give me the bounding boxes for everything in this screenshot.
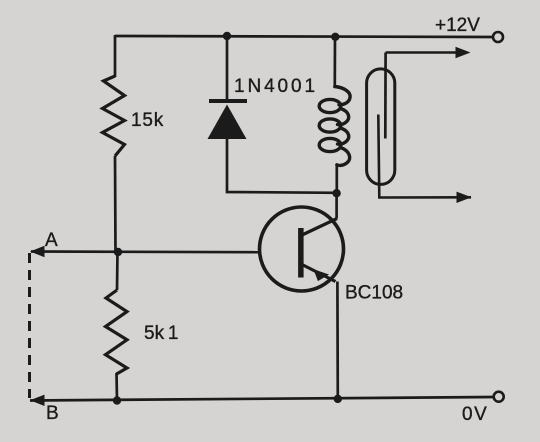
wire diode top lead xyxy=(226,36,229,100)
wire 5k1 bottom lead xyxy=(115,373,118,401)
wire diode bottom lead xyxy=(227,139,337,193)
node A junction xyxy=(114,248,122,256)
terminal 0V xyxy=(494,392,504,402)
arrow node A xyxy=(30,246,45,257)
svg-text:1N4001: 1N4001 xyxy=(234,76,318,97)
arrow bottom output xyxy=(457,192,472,203)
label B xyxy=(46,403,59,424)
wire left branch upper xyxy=(114,35,117,77)
label 1N4001 xyxy=(234,76,318,97)
label +12V xyxy=(435,15,480,36)
resistor R1 15k xyxy=(103,76,125,156)
node top diode junction xyxy=(223,32,231,40)
svg-text:B: B xyxy=(46,403,59,424)
svg-text:5k 1: 5k 1 xyxy=(144,323,178,344)
svg-text:BC108: BC108 xyxy=(345,283,403,304)
label 5k1 xyxy=(144,323,178,344)
label BC108 xyxy=(345,283,403,304)
label 15k xyxy=(131,110,164,131)
node top coil junction xyxy=(331,33,339,41)
terminal +12V xyxy=(493,32,503,42)
wire coil top lead xyxy=(333,37,336,87)
relay contact reed capsule xyxy=(367,69,395,184)
svg-text:+12V: +12V xyxy=(435,15,480,36)
wire emitter xyxy=(336,282,339,400)
node 5k1 bottom junction xyxy=(113,396,121,404)
relay coil RLA xyxy=(319,87,350,166)
svg-text:15k: 15k xyxy=(131,110,164,131)
wire collector xyxy=(335,193,338,219)
node emitter bottom junction xyxy=(334,395,342,403)
wire bottom rail xyxy=(30,397,494,401)
arrow top output xyxy=(386,47,471,58)
relay contact bottom lead xyxy=(378,115,471,198)
dashed link A-B xyxy=(28,253,31,398)
svg-text:0V: 0V xyxy=(462,404,488,425)
relay contact top lead xyxy=(384,53,387,139)
diode D1 1N4001 xyxy=(208,101,248,139)
svg-text:A: A xyxy=(45,230,58,251)
resistor R2 5k1 xyxy=(106,290,128,374)
arrow node B xyxy=(30,395,45,406)
label A xyxy=(45,230,58,251)
transistor Q1 BC108 xyxy=(260,207,344,291)
wire 5k1 top lead xyxy=(116,252,119,290)
label 0V xyxy=(462,404,488,425)
node collector junction xyxy=(332,189,340,197)
wire left branch lower xyxy=(114,156,117,253)
wire coil bottom lead xyxy=(335,164,338,194)
wire top rail xyxy=(115,36,493,37)
wire base lead xyxy=(31,250,260,253)
